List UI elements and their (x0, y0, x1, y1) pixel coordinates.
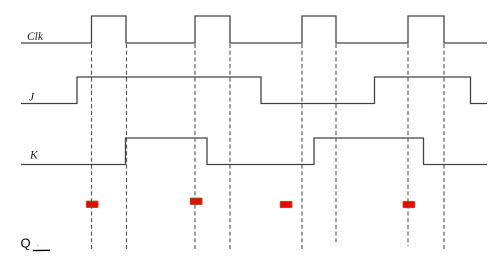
dashed guide line at Clk rising edge 3 (x=302) (301, 44, 303, 252)
dashed guide line at Clk falling edge 3 (x=336) (335, 44, 337, 242)
dashed guide line at Clk rising edge 4 (x=408) (407, 44, 409, 246)
svg-text:Q: Q (21, 236, 31, 251)
J waveform trace (21, 77, 487, 104)
red marker M2 (at clock edge 2) (190, 198, 202, 204)
K waveform trace (21, 138, 487, 165)
dashed guide line at Clk falling edge 1 (x=126.5) (126, 44, 128, 251)
answer baseline stub after Q (33, 249, 50, 251)
red marker M4 (at clock edge 4) (403, 201, 415, 207)
red marker M1 (setup/hold highlight at clock edge 1) (86, 201, 98, 207)
dashed guide line at Clk rising edge 1 (x=91.5) (91, 44, 93, 251)
tiny red cursor dot (37, 245, 38, 246)
svg-text:J: J (29, 91, 35, 103)
svg-text:K: K (29, 150, 39, 162)
red marker M3 (280, 201, 292, 207)
dashed guide line at Clk rising edge 2 (x=195) (194, 44, 196, 251)
dashed guide line at Clk falling edge 4 (x=444) (443, 44, 445, 251)
dashed guide line at Clk falling edge 2 (x=230) (229, 44, 231, 251)
svg-text:Clk: Clk (27, 31, 44, 43)
Clk waveform trace (21, 16, 487, 43)
